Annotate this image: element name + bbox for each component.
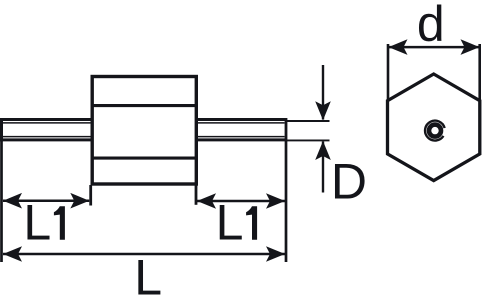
svg-text:L: L bbox=[216, 195, 244, 251]
svg-text:L: L bbox=[23, 195, 51, 251]
svg-text:L: L bbox=[134, 249, 162, 305]
svg-text:d: d bbox=[417, 0, 445, 52]
svg-text:D: D bbox=[331, 153, 367, 209]
